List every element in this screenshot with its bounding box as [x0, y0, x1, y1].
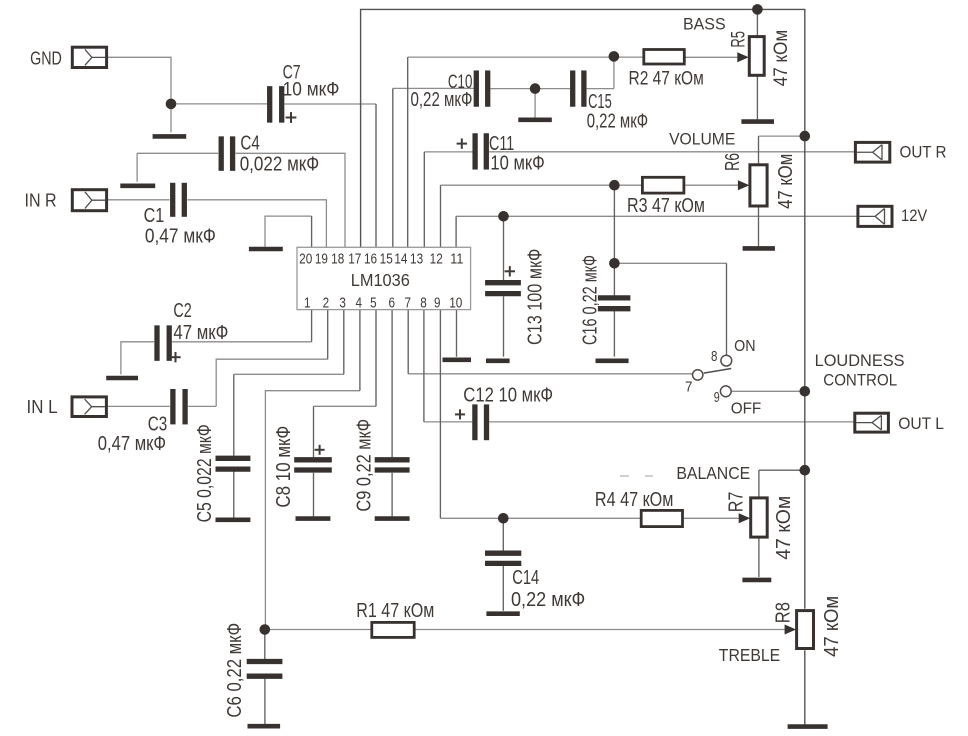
svg-text:6: 6	[388, 296, 395, 312]
svg-text:12: 12	[430, 252, 443, 268]
svg-text:LOUDNESS: LOUDNESS	[815, 351, 905, 370]
svg-text:7: 7	[405, 296, 412, 312]
svg-text:47 мкФ: 47 мкФ	[173, 322, 228, 344]
svg-text:R4 47 кОм: R4 47 кОм	[595, 489, 674, 511]
svg-text:C14: C14	[512, 567, 539, 589]
svg-text:3: 3	[339, 296, 346, 312]
svg-text:C2: C2	[173, 300, 191, 322]
svg-text:13: 13	[410, 252, 423, 268]
svg-text:14: 14	[394, 252, 407, 268]
svg-text:OFF: OFF	[731, 401, 762, 418]
svg-text:8: 8	[420, 296, 427, 312]
svg-text:LM1036: LM1036	[351, 270, 410, 290]
svg-text:16: 16	[364, 252, 377, 268]
svg-text:0,22 мкФ: 0,22 мкФ	[411, 89, 473, 111]
svg-text:10 мкФ: 10 мкФ	[283, 79, 340, 101]
svg-text:12V: 12V	[901, 207, 927, 225]
svg-text:47 кОм: 47 кОм	[770, 30, 792, 87]
svg-text:TREBLE: TREBLE	[719, 645, 780, 665]
svg-text:GND: GND	[30, 48, 62, 69]
svg-text:C1: C1	[144, 205, 165, 227]
svg-text:R3 47 кОм: R3 47 кОм	[627, 195, 705, 217]
svg-text:OUT L: OUT L	[898, 415, 944, 433]
svg-text:VOLUME: VOLUME	[669, 130, 735, 148]
svg-text:IN R: IN R	[25, 191, 57, 211]
svg-text:47 кОм: 47 кОм	[773, 496, 795, 560]
svg-text:9: 9	[714, 390, 720, 406]
svg-text:1: 1	[304, 296, 311, 312]
svg-text:C9 0,22 мкФ: C9 0,22 мкФ	[353, 419, 375, 512]
svg-text:R8: R8	[773, 602, 795, 623]
svg-text:9: 9	[434, 296, 441, 312]
svg-text:0,22 мкФ: 0,22 мкФ	[511, 589, 585, 611]
svg-text:10: 10	[449, 296, 462, 312]
svg-text:11: 11	[450, 252, 463, 268]
svg-text:BALANCE: BALANCE	[676, 463, 750, 483]
svg-text:0,22 мкФ: 0,22 мкФ	[587, 111, 648, 133]
svg-text:C16 0,22 мкФ: C16 0,22 мкФ	[580, 255, 602, 345]
svg-text:15: 15	[380, 252, 393, 268]
svg-text:CONTROL: CONTROL	[823, 370, 897, 389]
svg-text:19: 19	[315, 252, 328, 268]
svg-text:C12 10 мкФ: C12 10 мкФ	[463, 384, 553, 406]
svg-text:C6 0,22 мкФ: C6 0,22 мкФ	[224, 623, 246, 718]
svg-text:R2 47 кОм: R2 47 кОм	[629, 68, 704, 90]
svg-text:C13 100 мкФ: C13 100 мкФ	[525, 249, 547, 345]
svg-text:ON: ON	[734, 338, 755, 355]
svg-text:4: 4	[355, 296, 362, 312]
svg-text:0,47 мкФ: 0,47 мкФ	[145, 226, 216, 248]
svg-text:R1 47 кОм: R1 47 кОм	[356, 600, 434, 622]
svg-text:47 кОм: 47 кОм	[821, 596, 843, 657]
svg-text:C8 10 мкФ: C8 10 мкФ	[273, 426, 295, 508]
svg-text:7: 7	[685, 380, 693, 396]
svg-text:R7: R7	[725, 492, 747, 513]
svg-text:20: 20	[299, 252, 312, 268]
svg-text:C4: C4	[240, 133, 259, 155]
svg-text:R5: R5	[728, 31, 750, 48]
svg-text:47 кОм: 47 кОм	[775, 154, 797, 209]
svg-text:BASS: BASS	[683, 15, 726, 34]
svg-text:0,022 мкФ: 0,022 мкФ	[240, 153, 320, 175]
svg-text:OUT R: OUT R	[900, 144, 947, 162]
svg-text:C5 0,022 мкФ: C5 0,022 мкФ	[194, 424, 216, 522]
svg-text:2: 2	[323, 296, 330, 312]
svg-text:17: 17	[348, 252, 361, 268]
svg-text:R6: R6	[722, 153, 744, 171]
svg-text:IN L: IN L	[27, 397, 58, 417]
svg-text:18: 18	[331, 252, 344, 268]
svg-text:10 мкФ: 10 мкФ	[490, 153, 544, 175]
svg-text:8: 8	[711, 349, 717, 365]
svg-text:0,47 мкФ: 0,47 мкФ	[98, 433, 166, 455]
svg-text:5: 5	[370, 296, 377, 312]
